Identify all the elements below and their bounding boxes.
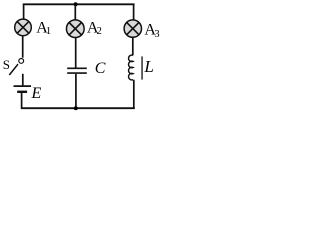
lamp A2 — [66, 20, 84, 38]
wire middle top — [74, 4, 76, 19]
svg-text:C: C — [95, 60, 106, 77]
node top junction — [74, 2, 78, 6]
capacitor C bottom plate — [67, 72, 87, 74]
switch S pivot — [19, 59, 24, 64]
wire switch to battery — [22, 74, 24, 86]
wire battery to bottom — [21, 93, 23, 109]
wire bottom — [21, 107, 135, 109]
capacitor C top plate — [67, 67, 87, 69]
wire capacitor to bottom — [75, 74, 77, 109]
wire A3 to inductor — [132, 38, 134, 56]
wire inductor to bottom — [133, 80, 135, 109]
svg-text:3: 3 — [154, 29, 159, 40]
lamp A3 — [124, 20, 141, 37]
lamp A1 — [15, 19, 32, 36]
inductor core bar — [141, 56, 143, 79]
wire A1 to switch — [22, 36, 24, 58]
switch S lever — [9, 64, 18, 75]
battery E short plate — [17, 91, 27, 93]
svg-text:E: E — [31, 85, 42, 102]
svg-text:L: L — [143, 57, 153, 76]
svg-text:2: 2 — [97, 26, 102, 37]
wire top — [23, 3, 135, 5]
svg-text:S: S — [3, 57, 10, 72]
inductor L coil — [129, 55, 134, 80]
battery E long plate — [14, 85, 32, 87]
wire right top stub — [133, 4, 135, 20]
wire left top stub — [23, 4, 25, 19]
svg-text:1: 1 — [46, 26, 51, 37]
wire A2 to capacitor — [75, 38, 77, 68]
node bottom junction — [74, 106, 78, 110]
